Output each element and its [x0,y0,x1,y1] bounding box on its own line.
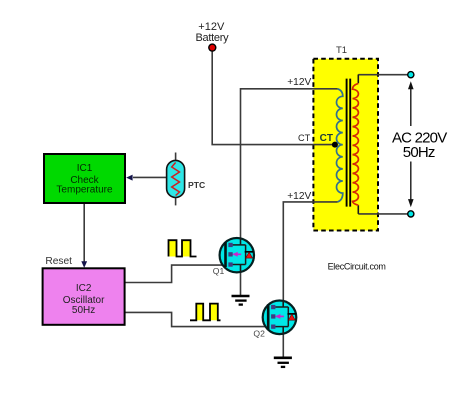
svg-text:Battery: Battery [196,32,230,44]
svg-text:T1: T1 [336,45,347,56]
svg-text:+12V: +12V [287,191,311,202]
svg-text:IC2: IC2 [76,283,92,294]
svg-text:Temperature: Temperature [56,184,113,195]
svg-text:Q1: Q1 [213,266,225,276]
svg-text:PTC: PTC [188,180,205,190]
svg-text:Q2: Q2 [253,328,265,338]
svg-text:50Hz: 50Hz [72,305,95,316]
svg-text:IC1: IC1 [77,163,93,174]
svg-text:CT: CT [320,133,333,144]
svg-text:CT: CT [298,133,311,143]
svg-text:Reset: Reset [45,256,72,267]
svg-text:ElecCircuit.com: ElecCircuit.com [328,261,386,271]
svg-text:+12V: +12V [287,77,311,88]
svg-text:50Hz: 50Hz [403,144,435,161]
